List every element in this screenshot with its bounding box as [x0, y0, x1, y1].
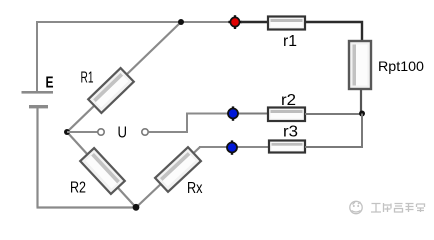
- resistor r2: [268, 108, 305, 122]
- resistor r1: [268, 17, 305, 30]
- resistor Rpt100: [349, 41, 371, 89]
- svg-text:R1: R1: [81, 70, 94, 87]
- wire right column down: [361, 114, 363, 148]
- node blue r2: [228, 106, 238, 120]
- resistor Rx: [155, 147, 201, 192]
- watermark text: [371, 203, 425, 212]
- wire top rail: [36, 21, 236, 23]
- wire U right to r2 row: [149, 114, 229, 133]
- node junction right column: [359, 111, 365, 117]
- wire R2 arm: [67, 132, 136, 208]
- svg-text:r1: r1: [283, 33, 297, 50]
- watermark logo: [350, 201, 362, 213]
- node blue r3: [227, 140, 237, 154]
- wire left vertical upper: [36, 21, 38, 91]
- resistor r3: [269, 141, 305, 153]
- wire U left: [67, 131, 98, 133]
- wire Rpt100 bottom: [360, 89, 362, 114]
- svg-text:r2: r2: [281, 92, 296, 109]
- wire Rx arm: [136, 147, 200, 208]
- svg-text:Rpt100: Rpt100: [378, 58, 424, 74]
- terminal right: [142, 129, 148, 135]
- resistor R1: [88, 68, 134, 113]
- resistor R2: [80, 148, 125, 194]
- svg-text:U: U: [118, 125, 128, 142]
- wire r2 row left: [228, 113, 268, 115]
- wire left vertical lower: [36, 108, 38, 208]
- node bottom bridge: [133, 204, 140, 211]
- wire bottom rail: [37, 206, 137, 208]
- svg-text:Rx: Rx: [187, 180, 203, 197]
- node red top: [228, 15, 241, 29]
- wire r3 row left: [199, 146, 268, 148]
- battery E top plate (long): [22, 91, 54, 94]
- wire r1 to Rpt100 (dark): [305, 22, 362, 41]
- wire r2 row right: [305, 113, 362, 115]
- svg-text:R2: R2: [70, 180, 86, 197]
- svg-text:E: E: [46, 75, 54, 92]
- wire red dot to r1 (dark): [241, 21, 268, 23]
- wire R1 arm: [67, 22, 181, 132]
- node top junction: [178, 19, 184, 25]
- terminal left: [98, 129, 104, 135]
- svg-text:r3: r3: [283, 124, 298, 141]
- node left bridge: [64, 129, 70, 135]
- battery E bottom plate (short thick): [29, 105, 48, 108]
- wire r3 row right: [305, 146, 363, 148]
